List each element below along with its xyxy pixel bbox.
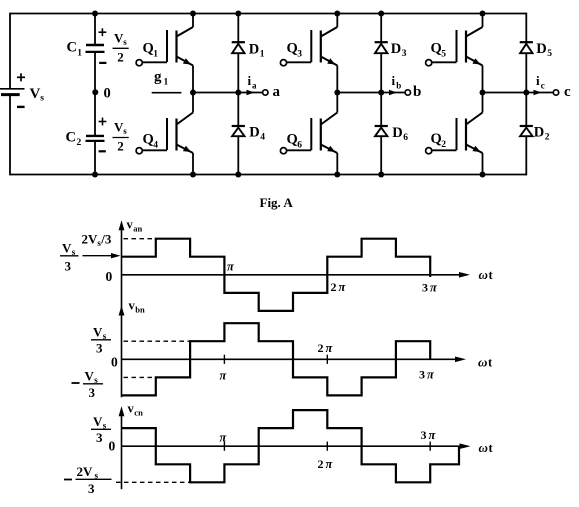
svg-text:b: b — [413, 84, 421, 100]
svg-text:6: 6 — [403, 133, 408, 143]
svg-text:V: V — [85, 369, 95, 384]
wire: capacitor column (C1 to C2) — [94, 52, 96, 135]
svg-text:i: i — [536, 73, 540, 88]
svg-text:ω: ω — [479, 440, 488, 455]
transistor Q5 — [457, 14, 483, 93]
transistor Q1 — [167, 14, 193, 93]
svg-text:D: D — [536, 41, 546, 57]
label wt (v_bn) — [478, 355, 493, 370]
svg-text:an: an — [133, 224, 142, 234]
transistor Q2 — [457, 93, 483, 175]
dashed level Vs/3 (v_bn) — [124, 340, 191, 342]
junction: Q2 leg / bottom bus — [480, 172, 486, 178]
svg-text:V: V — [30, 86, 41, 102]
label D5 — [536, 41, 552, 59]
junction: phase a / transistor leg — [190, 90, 196, 96]
wire: left rail above battery — [9, 13, 11, 89]
v_bn stepped waveform — [122, 323, 431, 395]
wire: bottom DC bus — [10, 174, 526, 176]
svg-text:2: 2 — [318, 341, 324, 355]
junction: diode column / top bus — [235, 11, 241, 17]
junction: Q4 leg / bottom bus — [190, 172, 196, 178]
tick pi (v_cn) — [223, 442, 225, 451]
wire: right rail between D5 and phase c — [525, 53, 527, 92]
svg-text:D: D — [391, 41, 401, 57]
tick pi (v_bn) — [223, 355, 225, 364]
label Vs/2 (C2) — [113, 120, 129, 154]
transistor Q4 — [167, 93, 193, 175]
label v_an — [127, 218, 143, 234]
label g1 (gate signal) — [154, 69, 169, 88]
svg-text:Q: Q — [431, 41, 442, 57]
label v_cn — [128, 402, 144, 418]
label Vs/3 (v_cn) — [91, 414, 111, 445]
junction: diode column / top bus — [378, 11, 384, 17]
svg-text:Q: Q — [287, 41, 298, 57]
svg-text:Q: Q — [431, 131, 442, 147]
junction: phase c / diode column — [523, 90, 529, 96]
wire: diode column between D3 and phase b — [380, 53, 382, 92]
wire: capacitor column (C2 to bottom bus) — [94, 141, 96, 174]
label wt (v_cn) — [479, 440, 494, 455]
svg-text:π: π — [326, 457, 334, 471]
wire: right rail (D2 to bottom bus) — [525, 136, 527, 175]
junction: phase a / diode column — [235, 90, 241, 96]
gate terminal Q4 — [136, 148, 167, 154]
svg-text:3: 3 — [65, 259, 72, 274]
node 0 (DC midpoint junction) — [92, 89, 98, 95]
diode D4 — [232, 126, 245, 136]
svg-text:Fig. A: Fig. A — [260, 195, 294, 210]
tick 2pi (v_cn) — [326, 442, 328, 451]
arrow from Vs/3 label to axis — [83, 253, 121, 258]
dashed level -Vs/3 (v_bn) — [124, 376, 158, 378]
v_cn plot: y-axis — [119, 406, 125, 489]
label -2Vs/3 (v_cn) — [64, 464, 112, 496]
label Vs/2 (C1) — [113, 31, 129, 65]
junction: diode column / bottom bus — [378, 172, 384, 178]
diode D6 — [375, 126, 388, 136]
label v_bn — [129, 299, 146, 315]
svg-text:/3: /3 — [100, 232, 112, 247]
junction: phase b / transistor leg — [334, 90, 340, 96]
junction: phase c / transistor leg — [480, 90, 486, 96]
wire: diode column between D1 and phase a — [237, 53, 239, 92]
polarity - (C2) — [99, 150, 106, 152]
wire: diode column between phase b and D6 — [380, 93, 382, 127]
label Vs (source) — [30, 86, 45, 104]
svg-text:0: 0 — [104, 85, 111, 101]
svg-text:3: 3 — [422, 281, 428, 295]
wire: top DC bus — [10, 13, 526, 15]
svg-text:a: a — [273, 84, 281, 100]
label 3pi (v_an) — [422, 281, 438, 295]
svg-text:1: 1 — [260, 50, 265, 60]
gate terminal Q1 — [136, 60, 167, 66]
wire: diode column D1 (top bus down) — [237, 14, 239, 43]
junction: Q5 leg / top bus — [480, 11, 486, 17]
svg-text:π: π — [326, 341, 334, 355]
label i_a — [248, 73, 258, 91]
wire: right rail (top bus down to D5) — [525, 13, 527, 43]
svg-text:π: π — [429, 428, 437, 442]
svg-text:bn: bn — [135, 305, 145, 315]
label 3pi (v_bn) — [419, 368, 435, 382]
svg-text:D: D — [249, 42, 259, 58]
junction: phase b / diode column — [378, 90, 384, 96]
svg-text:2: 2 — [441, 140, 446, 150]
svg-text:a: a — [252, 81, 257, 91]
wire: right rail between phase c and D2 — [525, 93, 527, 127]
diode D2 — [520, 126, 533, 136]
svg-text:Q: Q — [143, 41, 154, 57]
tick 2pi (v_bn) — [326, 355, 328, 364]
svg-text:3: 3 — [402, 49, 407, 59]
svg-text:c: c — [564, 84, 571, 100]
gate terminal Q5 — [426, 60, 457, 66]
v_an plot: y-axis — [119, 220, 125, 311]
capacitor C2 — [86, 136, 105, 141]
svg-text:s: s — [40, 94, 44, 104]
current arrow i_c — [534, 90, 542, 96]
svg-text:0: 0 — [109, 439, 116, 454]
label D1 — [249, 42, 265, 60]
label D6 — [392, 125, 408, 143]
label Q1 — [143, 41, 159, 60]
svg-text:s: s — [123, 126, 127, 136]
polarity + (C2) — [99, 118, 107, 126]
label D2 — [534, 125, 550, 143]
svg-text:4: 4 — [153, 141, 158, 151]
svg-text:3: 3 — [88, 481, 95, 496]
svg-text:D: D — [534, 125, 544, 141]
svg-text:b: b — [396, 81, 401, 91]
label 2Vs/3 — [82, 232, 112, 249]
svg-text:1: 1 — [153, 50, 158, 60]
svg-text:π: π — [427, 368, 435, 382]
v_an plot: x-axis (wt) — [122, 272, 471, 278]
label Vs/3 (fraction) — [60, 241, 79, 274]
label C1 — [67, 40, 83, 59]
svg-text:5: 5 — [547, 49, 552, 59]
svg-text:V: V — [93, 325, 103, 340]
svg-text:D: D — [392, 125, 402, 141]
svg-text:2: 2 — [117, 50, 124, 65]
gate signal line under g1 — [152, 92, 182, 94]
v_an stepped waveform — [122, 239, 431, 311]
terminal c — [553, 90, 558, 95]
svg-text:ω: ω — [479, 267, 488, 282]
gate terminal Q6 — [280, 148, 311, 154]
svg-text:C: C — [66, 130, 76, 146]
svg-text:1: 1 — [77, 49, 82, 59]
svg-text:3: 3 — [421, 428, 427, 442]
polarity - (C1) — [99, 62, 106, 64]
svg-text:i: i — [248, 73, 252, 88]
current arrow i_b — [389, 90, 397, 96]
label C2 — [66, 130, 82, 149]
label wt (v_an) — [479, 267, 494, 282]
wire: diode column D4 (to bottom bus) — [237, 136, 239, 174]
capacitor C1 — [86, 45, 105, 52]
wire: capacitor column (top bus to C1) — [94, 14, 96, 45]
label 2pi (v_cn) — [318, 457, 334, 471]
svg-text:2: 2 — [545, 133, 550, 143]
svg-text:5: 5 — [441, 50, 446, 60]
svg-text:D: D — [249, 124, 259, 140]
label D4 — [249, 124, 265, 142]
svg-text:2: 2 — [331, 280, 337, 294]
svg-text:4: 4 — [260, 132, 265, 142]
terminal a — [263, 90, 268, 95]
wire: left rail below battery — [9, 95, 11, 175]
svg-text:3: 3 — [96, 341, 103, 356]
label Q4 — [143, 132, 159, 151]
label -Vs/3 (v_bn) — [72, 369, 104, 401]
wire: phase c output — [483, 92, 554, 94]
transistor Q3 — [311, 14, 337, 93]
svg-text:c: c — [541, 81, 545, 91]
svg-text:s: s — [123, 37, 127, 47]
gate terminal Q2 — [426, 148, 457, 154]
v_bn plot: y-axis — [119, 306, 125, 398]
svg-text:6: 6 — [297, 141, 302, 151]
dashed level -2Vs/3 (v_cn) — [116, 481, 190, 483]
wire: diode column D3 (top bus down) — [380, 14, 382, 43]
wire: diode column D6 (to bottom bus) — [380, 136, 382, 174]
svg-text:π: π — [220, 369, 228, 383]
junction: Q1 leg / top bus — [190, 11, 196, 17]
junction: diode column / bottom bus — [235, 172, 241, 178]
svg-text:C: C — [67, 40, 77, 56]
svg-text:ω: ω — [478, 355, 487, 370]
gate terminal Q3 — [280, 60, 311, 66]
svg-text:2: 2 — [318, 457, 324, 471]
svg-text:0: 0 — [106, 269, 113, 284]
svg-text:2: 2 — [77, 138, 82, 148]
label Q5 — [431, 41, 447, 60]
wire: phase a output — [193, 92, 263, 94]
junction: Q3 leg / top bus — [334, 11, 340, 17]
label Vs/3 (v_bn) — [91, 325, 111, 356]
label 2pi (v_bn) — [318, 341, 334, 355]
label 2pi (v_an) — [331, 280, 347, 294]
battery polarity + — [17, 73, 25, 81]
dashed level 2Vs/3 — [124, 238, 157, 240]
diode D5 — [520, 42, 533, 53]
label i_b — [392, 73, 402, 91]
svg-text:i: i — [392, 73, 396, 88]
svg-text:2V: 2V — [82, 232, 99, 247]
svg-text:Q: Q — [287, 132, 298, 148]
svg-text:V: V — [62, 241, 72, 256]
svg-text:Q: Q — [143, 132, 154, 148]
transistor Q6 — [311, 93, 337, 175]
svg-text:π: π — [220, 431, 228, 445]
v_cn stepped waveform — [122, 410, 460, 482]
diode D1 — [232, 42, 245, 53]
label D3 — [391, 41, 407, 59]
svg-text:π: π — [430, 281, 438, 295]
label Q2 — [431, 131, 447, 150]
terminal b — [405, 90, 410, 95]
label Q3 — [287, 41, 303, 60]
svg-text:cn: cn — [134, 408, 143, 418]
tick 3pi (v_cn) — [429, 442, 431, 451]
battery polarity - — [17, 106, 25, 108]
svg-text:g: g — [154, 69, 162, 85]
diode D3 — [375, 42, 388, 53]
battery Vs — [0, 89, 25, 95]
svg-text:0: 0 — [111, 355, 118, 370]
v_cn plot: x-axis (wt) — [122, 443, 471, 449]
polarity + (C1) — [99, 28, 107, 36]
v_bn plot: x-axis (wt) — [122, 357, 467, 363]
svg-text:π: π — [227, 260, 235, 274]
wire: diode column between phase a and D4 — [237, 93, 239, 127]
svg-text:1: 1 — [164, 78, 169, 88]
svg-text:3: 3 — [297, 50, 302, 60]
svg-text:2: 2 — [117, 139, 124, 154]
svg-text:3: 3 — [96, 430, 103, 445]
current arrow i_a — [247, 90, 255, 96]
junction: cap column / top bus — [92, 11, 98, 17]
svg-text:π: π — [339, 280, 347, 294]
label i_c — [536, 73, 545, 91]
svg-text:3: 3 — [89, 385, 96, 400]
junction: Q6 leg / bottom bus — [334, 172, 340, 178]
svg-text:2V: 2V — [77, 464, 94, 479]
svg-text:V: V — [93, 414, 103, 429]
wire: phase b output — [337, 92, 405, 94]
label 3pi (v_cn) — [421, 428, 437, 442]
svg-text:3: 3 — [419, 368, 425, 382]
label Q6 — [287, 132, 303, 151]
junction: cap column / bottom bus — [92, 172, 98, 178]
